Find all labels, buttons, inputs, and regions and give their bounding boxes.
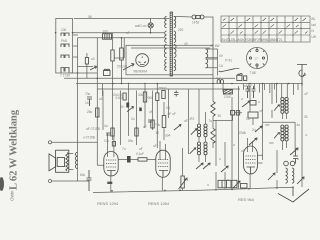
svg-text:um: um: [269, 141, 274, 145]
extra small marks mid band: [99, 97, 308, 161]
coil La1: [61, 33, 69, 36]
svg-text:RENS 1264: RENS 1264: [148, 201, 170, 206]
svg-text:uF: uF: [126, 31, 130, 35]
svg-text:2u: 2u: [252, 128, 256, 132]
resistor R10: [138, 158, 147, 161]
wire box right vertical: [77, 38, 79, 181]
svg-text:REN904: REN904: [134, 70, 148, 74]
wire bus H3: [76, 83, 302, 85]
svg-text:10u: 10u: [104, 139, 110, 143]
coil L4: [286, 168, 288, 183]
resistor R13: [250, 101, 256, 106]
wire v302: [301, 86, 303, 187]
coil L100: [103, 34, 112, 40]
svg-text:u 0715B: u 0715B: [83, 136, 95, 140]
IF transformer T2: [197, 124, 207, 155]
resistor R9: [96, 108, 99, 117]
wire v213b: [212, 75, 214, 148]
wire bus H4: [97, 88, 240, 90]
divider block on bus: [218, 180, 237, 188]
svg-text:LW: LW: [312, 35, 317, 39]
speaker driver box: [56, 150, 69, 172]
capacitor C15: [112, 142, 115, 147]
capacitor C14: [106, 133, 111, 135]
svg-text:7u: 7u: [209, 119, 213, 123]
svg-text:GWk: GWk: [239, 131, 246, 135]
svg-text:ChU10: ChU10: [117, 65, 127, 69]
wire tube V5 top leads: [248, 138, 253, 152]
trimmer arrow S14: [274, 105, 279, 111]
svg-text:7 88: 7 88: [250, 71, 256, 75]
coil L5: [292, 168, 294, 183]
svg-text:uF: uF: [184, 119, 188, 123]
wire stubs below H3: [223, 84, 298, 93]
svg-text:7 1739: 7 1739: [60, 74, 70, 78]
svg-text:BL: BL: [312, 17, 316, 21]
wire v136: [136, 91, 138, 146]
svg-text:uF uF: uF uF: [168, 112, 176, 116]
svg-text:06: 06: [88, 15, 92, 19]
resistor R7: [135, 128, 138, 136]
svg-text:L 62 W Weltklang: L 62 W Weltklang: [9, 109, 20, 190]
svg-text:7u: 7u: [122, 147, 126, 151]
trimmer arrow S11: [242, 101, 250, 107]
wire terminal lower: [52, 180, 90, 182]
svg-text:4u: 4u: [104, 124, 108, 128]
svg-text:uF: uF: [149, 110, 153, 114]
tube socket circle U4: [247, 48, 268, 69]
wire v232: [231, 97, 233, 189]
wire v112: [112, 33, 114, 140]
capacitor C20: [174, 91, 179, 97]
resistor R8: [151, 120, 154, 128]
table slashes: [223, 18, 308, 34]
resistor R23: [162, 116, 166, 128]
trimmer arrow S6: [127, 106, 134, 111]
svg-text:30u: 30u: [138, 93, 144, 97]
transformer right windings: [174, 16, 176, 70]
speaker voice winding zigzag: [66, 153, 69, 171]
switch S18: [268, 173, 275, 180]
coil L101: [104, 71, 111, 76]
switch S17: [297, 177, 304, 184]
wire box stubs: [73, 35, 78, 57]
wire v272: [271, 84, 273, 119]
svg-text:30: 30: [156, 131, 160, 135]
ground symbol: [292, 187, 294, 196]
svg-text:70u: 70u: [155, 123, 161, 127]
capacitor C1: [87, 97, 92, 106]
coil La2: [61, 44, 69, 47]
tiny curls on bus: [217, 80, 223, 84]
wire fuse to v213: [204, 17, 213, 48]
switch arrow S19: [90, 66, 97, 70]
antenna input box: [56, 18, 73, 73]
resistor zigzag R22: [211, 128, 215, 143]
tube V2: [104, 152, 118, 177]
wire lamp leads: [150, 18, 152, 32]
wire tube V2 top leads: [108, 133, 114, 157]
svg-text:70u: 70u: [85, 92, 91, 96]
svg-text:0,1uF: 0,1uF: [136, 152, 144, 156]
resistor R12: [237, 75, 242, 80]
antenna symbol: [297, 65, 307, 87]
wire bus H2c: [78, 37, 165, 39]
electrolytic E1: [284, 161, 289, 166]
bottom ground bus: [93, 187, 293, 192]
wire v103: [102, 91, 104, 131]
svg-text:u: u: [241, 97, 243, 101]
svg-text:u: u: [207, 183, 209, 187]
svg-text:100: 100: [61, 28, 67, 32]
wire v250: [250, 86, 253, 125]
capacitor C4: [127, 156, 131, 163]
svg-text:uF: uF: [305, 92, 309, 96]
svg-text:u: u: [258, 100, 260, 104]
svg-text:u04: u04: [165, 134, 171, 138]
svg-text:uF: uF: [153, 144, 157, 148]
trimmer arrow S12: [255, 126, 262, 132]
trimmer arrow S13: [249, 138, 257, 145]
capacitor C2b: [139, 108, 142, 112]
wire transformer top lead: [174, 15, 192, 18]
capacitor C6: [246, 86, 250, 98]
wire v216: [215, 120, 217, 189]
svg-text:1F52: 1F52: [192, 21, 199, 25]
svg-text:143: 143: [85, 101, 91, 105]
coil La4 bottom: [61, 68, 69, 73]
switch arrow S5: [123, 63, 134, 70]
capacitor C10: [85, 58, 88, 65]
wire tube V3 bottom: [161, 177, 163, 191]
svg-text:220: 220: [178, 28, 184, 32]
wire v264: [262, 84, 264, 161]
svg-text:uF: uF: [260, 109, 264, 113]
svg-text:uF: uF: [139, 147, 143, 151]
svg-text:26u: 26u: [87, 110, 93, 114]
speaker cone: [49, 154, 56, 171]
capacitor C11: [236, 111, 239, 115]
wire v277b: [276, 150, 278, 188]
svg-text:30: 30: [120, 105, 124, 109]
svg-text:uF: uF: [143, 125, 147, 129]
tube chart table: [221, 16, 310, 42]
wire tube V3 top leads: [160, 141, 166, 160]
svg-text:um: um: [265, 123, 270, 127]
transformer core band: [170, 12, 172, 76]
svg-text:60u: 60u: [80, 173, 86, 177]
electrolytic E2: [290, 161, 295, 166]
svg-text:100: 100: [103, 29, 109, 33]
terminal lower: [49, 180, 52, 183]
heater winding W1: [206, 49, 208, 58]
svg-text:1u: 1u: [246, 117, 250, 121]
svg-text:4V 4W: 4V 4W: [210, 44, 220, 48]
capacitor C12: [244, 76, 247, 81]
svg-text:RENS 1294: RENS 1294: [97, 201, 119, 206]
resistor R3: [123, 93, 126, 100]
svg-text:u: u: [219, 157, 221, 161]
svg-text:u: u: [297, 157, 299, 161]
speaker magnet: [57, 158, 64, 167]
svg-text:u: u: [306, 133, 308, 137]
wire heater v218: [217, 49, 219, 76]
detector shield box: [126, 45, 213, 75]
resistor R2: [111, 50, 114, 61]
fuse F1: [192, 15, 196, 19]
wire tube V2 bottom: [110, 176, 112, 192]
wire top bus H1: [74, 17, 169, 19]
switch S8: [203, 163, 210, 169]
svg-text:2u: 2u: [131, 117, 135, 121]
wire tube V5 bottom: [249, 174, 251, 188]
tube V3: [156, 150, 170, 177]
wire v164: [163, 102, 165, 140]
wire v126: [123, 38, 125, 58]
wire IF T2 leads: [199, 89, 206, 162]
wire stubs mid: [213, 113, 242, 121]
resistor zigzag R21: [211, 101, 215, 116]
switch S9: [221, 166, 228, 172]
resistor R24: [241, 184, 248, 189]
wire speaker stubs: [69, 154, 74, 170]
resistor R4: [143, 92, 146, 102]
wire v160: [156, 84, 158, 149]
capacitor C7: [252, 86, 256, 98]
IF transformer T3: [281, 97, 288, 141]
svg-text:17uF: 17uF: [224, 95, 231, 99]
svg-text:814T1Z8L4M1K7S3W9F2R6H5D1B84T2: 814T1Z8L4M1K7S3W9F2R6H5D1B84T21: [222, 38, 283, 42]
svg-text:50u: 50u: [128, 139, 134, 143]
svg-text:4u: 4u: [297, 123, 301, 127]
svg-text:ChU10: ChU10: [113, 93, 123, 97]
svg-text:77931: 77931: [158, 87, 167, 91]
wire bus H2: [73, 32, 165, 34]
capacitor C9: [293, 150, 298, 164]
svg-text:JF2: JF2: [189, 117, 195, 121]
wire v188: [187, 89, 189, 154]
svg-text:30: 30: [304, 115, 308, 119]
switch S16: [290, 148, 298, 155]
switch S10: [233, 181, 240, 188]
svg-text:JFz: JFz: [93, 65, 99, 69]
svg-text:lad: lad: [312, 23, 316, 27]
speaker coupling coil on v77: [75, 152, 77, 168]
svg-text:uF 0715B: uF 0715B: [86, 127, 100, 131]
wire v152: [152, 91, 154, 131]
potentiometer P2: [181, 176, 184, 188]
mains transformer T1 left windings: [164, 16, 166, 70]
socket wiring comb: [244, 84, 275, 94]
switch P91: [219, 69, 236, 72]
resistor R6: [111, 128, 114, 136]
svg-text:antG.on: antG.on: [135, 24, 147, 28]
smudge left edge: [0, 177, 4, 191]
detector tube V1: [136, 54, 149, 67]
wire V5 right stubs: [258, 155, 263, 163]
svg-text:PhD: PhD: [61, 39, 68, 43]
capacitor C13: [148, 120, 153, 122]
wire switch lead: [235, 68, 239, 70]
wire v168: [168, 89, 170, 118]
svg-text:0,1: 0,1: [166, 106, 171, 110]
svg-text:uF uF: uF uF: [244, 84, 252, 88]
wire phono: [52, 141, 98, 143]
wire IF T3 leads: [263, 84, 296, 151]
lamp P1: [148, 23, 153, 28]
wire left links: [70, 67, 97, 73]
wire v182: [182, 148, 184, 190]
resistor R1: [121, 38, 123, 48]
wire v128: [128, 85, 130, 137]
capacitor C3: [87, 170, 92, 191]
trimmer arrow S15: [274, 132, 279, 138]
resistor R5: [156, 93, 159, 101]
wire v238: [238, 86, 240, 189]
wire v225: [224, 142, 226, 189]
trimmer arrow S20: [174, 125, 181, 131]
box C8: [248, 112, 258, 118]
wire v120: [120, 91, 122, 146]
svg-text:Owin: Owin: [10, 190, 15, 201]
svg-text:30: 30: [218, 114, 222, 118]
svg-text:u: u: [227, 178, 229, 182]
table dots: [228, 22, 301, 36]
phono terminal: [48, 141, 51, 144]
svg-text:RES 964: RES 964: [238, 197, 255, 202]
tube socket rim ticks: [250, 48, 265, 69]
switch S7: [196, 163, 203, 169]
wire v145: [144, 85, 146, 129]
svg-text:u5: u5: [241, 149, 245, 153]
trimmer arrow T2b: [190, 148, 196, 154]
svg-text:7000: 7000: [146, 96, 153, 100]
resistor R11: [231, 110, 235, 115]
scattered value labels: [88, 15, 308, 187]
svg-text:u3: u3: [91, 57, 95, 61]
trimmer arrow T2a: [191, 129, 197, 135]
wire bus H2b: [64, 77, 235, 79]
tube V5: [244, 146, 258, 174]
capacitor C2: [126, 103, 129, 108]
svg-text:u2: u2: [99, 97, 103, 101]
block capacitor C5: [223, 90, 232, 95]
svg-text:u u: u u: [216, 76, 221, 80]
wire heater leads: [206, 49, 218, 68]
heater winding W2: [206, 59, 208, 68]
wire v97: [97, 38, 104, 166]
wire v96: [102, 84, 104, 97]
svg-text:P-91: P-91: [225, 59, 232, 63]
svg-text:17: 17: [255, 57, 259, 61]
coil La3: [61, 55, 69, 58]
svg-text:u: u: [233, 143, 235, 147]
